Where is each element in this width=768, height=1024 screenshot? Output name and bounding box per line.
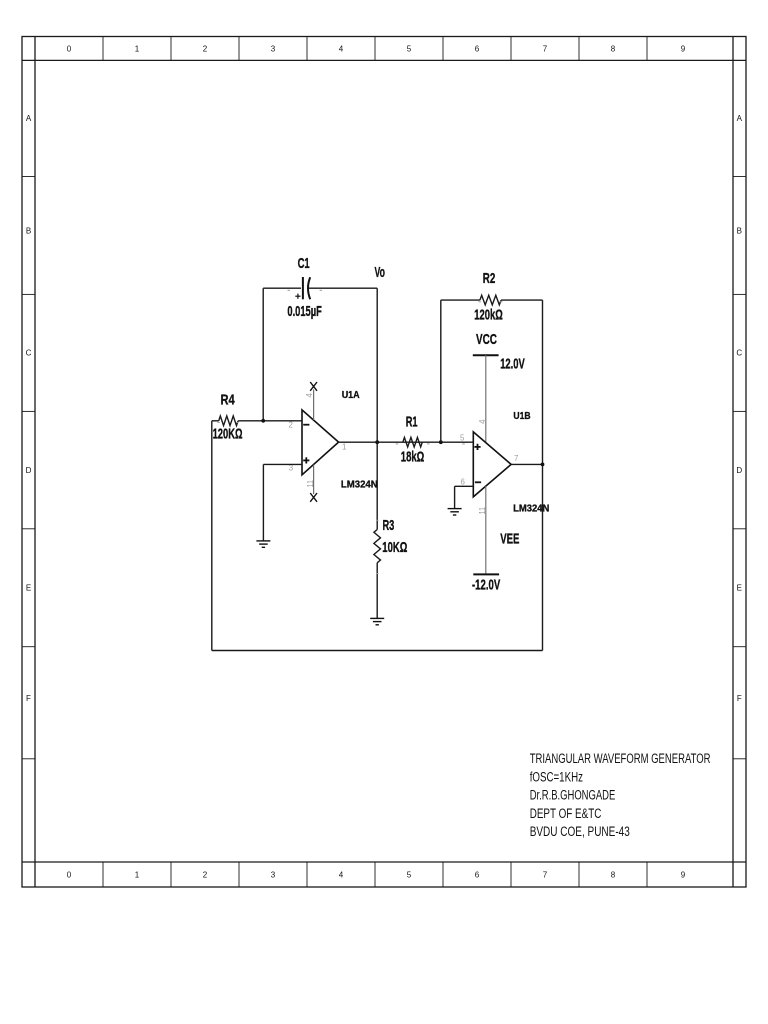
svg-text:2: 2 (289, 420, 294, 430)
svg-text:7: 7 (543, 870, 548, 879)
node junction R4/C1 (261, 419, 265, 423)
svg-text:7: 7 (514, 453, 519, 463)
resistor R2 (480, 295, 501, 305)
svg-text:U1B: U1B (513, 411, 530, 422)
svg-text:U1A: U1A (342, 390, 360, 401)
svg-text:4: 4 (304, 393, 314, 398)
svg-text:LM324N: LM324N (513, 504, 549, 515)
svg-text:1: 1 (135, 44, 140, 53)
svg-text:4: 4 (339, 44, 344, 53)
svg-text:F: F (737, 694, 742, 703)
svg-text:Dr.R.B.GHONGADE: Dr.R.B.GHONGADE (530, 788, 616, 803)
svg-text:2: 2 (203, 870, 208, 879)
ground under U1A (256, 541, 270, 547)
svg-text:E: E (737, 584, 742, 593)
ground under U1B (448, 509, 462, 515)
svg-text:8: 8 (611, 44, 616, 53)
svg-text:C: C (736, 349, 742, 358)
wire R3 bottom (376, 563, 378, 619)
svg-text:B: B (26, 227, 31, 236)
svg-text:D: D (736, 466, 742, 475)
svg-text:4: 4 (477, 419, 487, 424)
border column numbers top (67, 44, 686, 53)
wire feedback right vertical (542, 300, 544, 650)
svg-text:A: A (26, 114, 32, 123)
svg-text:5: 5 (407, 870, 412, 879)
svg-text:7: 7 (543, 44, 548, 53)
svg-text:4: 4 (339, 870, 344, 879)
title block text (530, 751, 711, 839)
wire U1A power stub top (313, 390, 315, 421)
svg-text:LM324N: LM324N (341, 480, 378, 491)
wire R2 right (501, 299, 542, 301)
resistor R3 (374, 530, 381, 563)
svg-text:120KΩ: 120KΩ (213, 427, 243, 443)
capacitor C1 (295, 277, 310, 299)
sheet border frame (22, 37, 746, 888)
svg-text:DEPT OF E&TC: DEPT OF E&TC (530, 806, 602, 821)
svg-text:3: 3 (271, 44, 276, 53)
svg-text:A: A (737, 114, 743, 123)
op-amp U1A (302, 410, 339, 475)
wire feedback left vertical (211, 421, 213, 651)
wire C1 top left (263, 287, 301, 289)
svg-text:TRIANGULAR WAVEFORM GENERATOR: TRIANGULAR WAVEFORM GENERATOR (530, 751, 711, 766)
svg-text:9: 9 (681, 44, 686, 53)
svg-text:E: E (26, 584, 31, 593)
svg-text:8: 8 (611, 870, 616, 879)
svg-text:12.0V: 12.0V (500, 357, 525, 373)
power VCC (473, 355, 499, 442)
border row letters right (736, 114, 742, 703)
wire feedback bottom (212, 650, 543, 652)
svg-text:BVDU COE, PUNE-43: BVDU COE, PUNE-43 (530, 824, 630, 839)
svg-text:3: 3 (271, 870, 276, 879)
svg-text:C: C (26, 349, 32, 358)
svg-text:B: B (737, 227, 742, 236)
svg-text:R4: R4 (221, 393, 236, 409)
wire U1A + down to ground (262, 464, 264, 541)
svg-text:0: 0 (67, 44, 72, 53)
svg-text:10KΩ: 10KΩ (382, 540, 407, 556)
svg-text:6: 6 (475, 870, 480, 879)
border column numbers bottom (67, 870, 686, 879)
wire R4 left stub (212, 420, 219, 422)
wire R2 left vertical (440, 300, 442, 442)
wire U1A + input (263, 463, 302, 465)
node junction output/feedback (541, 463, 545, 467)
svg-text:9: 9 (681, 870, 686, 879)
no-connect X top U1A (310, 382, 317, 391)
node junction R1/R2 (439, 440, 443, 444)
wire C1 left vertical (262, 288, 264, 421)
svg-text:VCC: VCC (476, 332, 497, 348)
svg-text:0.015µF: 0.015µF (287, 304, 321, 320)
svg-text:6: 6 (461, 476, 466, 486)
no-connect X bottom U1A (310, 493, 317, 502)
wire VEE vertical (485, 486, 487, 574)
wire U1A output (339, 441, 474, 443)
wire U1B - down to ground (454, 486, 456, 508)
svg-text:-12.0V: -12.0V (472, 577, 500, 593)
svg-text:1: 1 (135, 870, 140, 879)
svg-text:R2: R2 (483, 271, 496, 287)
resistor R1 (403, 437, 422, 447)
svg-text:6: 6 (475, 44, 480, 53)
border row letters left (26, 114, 32, 703)
svg-text:C1: C1 (298, 256, 310, 272)
wire Vo vertical (376, 288, 378, 529)
svg-text:F: F (26, 694, 31, 703)
node junction output/Vo (375, 440, 379, 444)
power VEE (473, 573, 499, 575)
ground under R3 (370, 618, 384, 624)
svg-text:5: 5 (460, 432, 465, 442)
wire U1B output (511, 463, 542, 465)
resistor R4 (219, 416, 238, 426)
svg-text:R3: R3 (383, 518, 395, 534)
svg-text:VEE: VEE (500, 531, 519, 547)
svg-text:2: 2 (203, 44, 208, 53)
svg-text:Vo: Vo (375, 265, 386, 281)
svg-text:D: D (26, 466, 32, 475)
svg-text:5: 5 (407, 44, 412, 53)
svg-text:120kΩ: 120kΩ (474, 307, 503, 323)
svg-text:fOSC=1KHz: fOSC=1KHz (530, 769, 583, 784)
wire R2 left (441, 299, 480, 301)
wire U1A power stub bottom (313, 465, 315, 494)
svg-text:0: 0 (67, 870, 72, 879)
pin end ticks (217, 290, 502, 573)
op-amp U1B (473, 432, 511, 497)
svg-text:18kΩ: 18kΩ (401, 450, 425, 466)
wire U1B - input (455, 485, 474, 487)
border dividers (22, 37, 746, 888)
wire C1 top right to Vo (308, 287, 378, 289)
svg-text:R1: R1 (406, 415, 418, 431)
wire inverting input (238, 420, 302, 422)
